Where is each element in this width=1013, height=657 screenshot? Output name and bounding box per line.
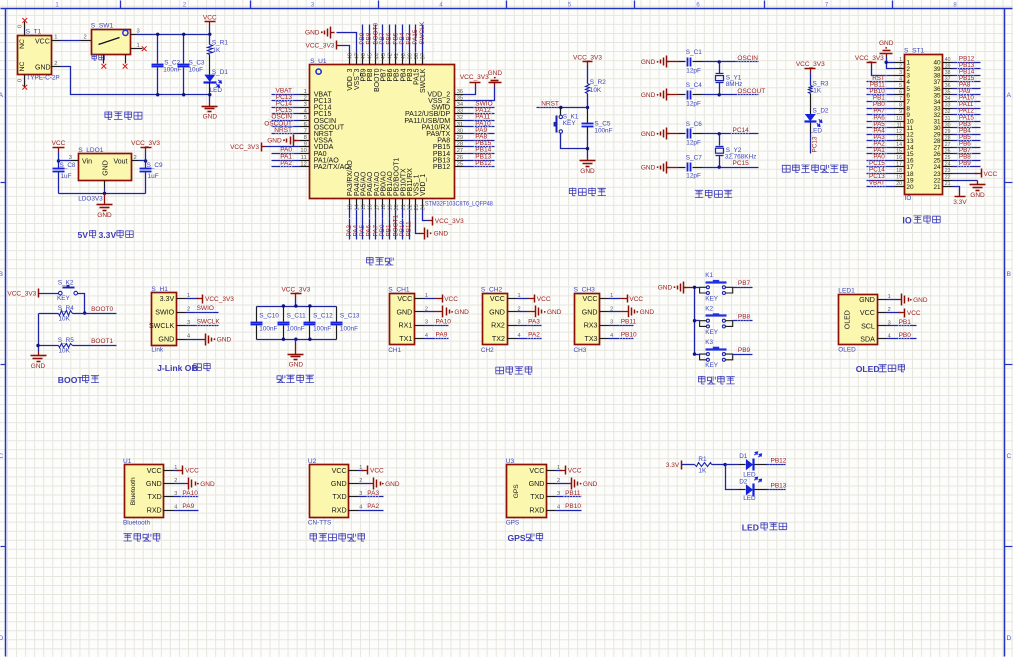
- svg-text:PB7: PB7: [738, 280, 751, 287]
- svg-text:TXD: TXD: [148, 493, 162, 501]
- svg-text:PA2: PA2: [280, 160, 292, 167]
- svg-text:1K: 1K: [698, 467, 707, 474]
- svg-text:11: 11: [301, 155, 307, 161]
- svg-text:SDA: SDA: [860, 335, 875, 343]
- svg-text:17: 17: [896, 162, 902, 168]
- LED S_D1: [204, 75, 215, 82]
- S_CH1 pin2 GND: [424, 311, 435, 313]
- svg-text:PA9: PA9: [436, 332, 448, 339]
- LDO pin 3 stub: [71, 160, 79, 162]
- S_SW1 pin 3 stub: [131, 34, 137, 36]
- wire D2 to PC13: [810, 123, 812, 135]
- title 蓝牙模块: [124, 533, 160, 541]
- svg-text:VCC: VCC: [203, 15, 217, 22]
- NRST wire and label: [537, 107, 588, 109]
- key S_K1: [560, 108, 562, 116]
- svg-text:10: 10: [896, 116, 902, 122]
- OLED pin2 VCC: [887, 312, 901, 314]
- svg-text:GND: GND: [397, 308, 413, 316]
- svg-text:20: 20: [906, 184, 914, 191]
- svg-text:25: 25: [457, 161, 463, 167]
- svg-text:GND: GND: [489, 308, 505, 316]
- svg-text:SCL: SCL: [861, 322, 875, 330]
- svg-text:PA10: PA10: [182, 490, 198, 497]
- zone ticks sides: [1, 182, 6, 184]
- svg-text:10uF: 10uF: [189, 67, 204, 74]
- svg-text:B: B: [1007, 271, 1011, 278]
- diode D1: [726, 464, 739, 466]
- svg-text:32.768KHz: 32.768KHz: [725, 153, 757, 160]
- wire R1 top: [209, 35, 211, 45]
- resistor S_R4 10K: [39, 313, 59, 315]
- capacitor S_C1 12pF: [679, 61, 686, 63]
- S_CH3 stubs and numbers: [600, 298, 609, 300]
- svg-text:GND: GND: [97, 212, 112, 219]
- svg-text:GND: GND: [913, 297, 928, 304]
- capacitor S_C8 1uF: [58, 161, 60, 169]
- svg-text:39: 39: [408, 53, 414, 59]
- resistor S_R3 1K: [809, 86, 813, 94]
- VSS_2 to GND: [464, 87, 495, 101]
- selection dots bottom band: [345, 210, 434, 219]
- svg-text:S_C11: S_C11: [287, 313, 307, 320]
- svg-text:VCC_3V3: VCC_3V3: [305, 43, 334, 50]
- svg-text:S_R1: S_R1: [212, 39, 228, 46]
- svg-text:11: 11: [897, 122, 902, 128]
- ground GND at pin 22: [953, 180, 978, 182]
- selection dots top band: [345, 42, 434, 53]
- svg-text:TXD: TXD: [530, 493, 544, 501]
- svg-text:35: 35: [457, 95, 463, 101]
- svg-text:A: A: [1007, 92, 1012, 99]
- header S_CH2 body: [483, 294, 508, 345]
- capacitor S_C10 100nF: [256, 307, 258, 322]
- S_CH3 pin1 VCC: [609, 298, 621, 300]
- svg-text:K2: K2: [705, 306, 713, 313]
- svg-text:44: 44: [374, 53, 380, 59]
- svg-text:3.3V: 3.3V: [953, 199, 967, 206]
- svg-text:GND: GND: [203, 113, 218, 120]
- ground at VSSA pin 8: [294, 140, 297, 142]
- svg-text:35: 35: [945, 90, 951, 96]
- svg-text:Vout: Vout: [113, 159, 127, 166]
- svg-text:48: 48: [348, 53, 354, 59]
- svg-text:IO: IO: [905, 195, 912, 202]
- svg-text:GND: GND: [385, 481, 400, 488]
- svg-text:28: 28: [945, 135, 951, 141]
- title 晶振电路: [695, 190, 733, 198]
- svg-text:TYPE-C-2P: TYPE-C-2P: [26, 75, 59, 82]
- svg-text:8: 8: [899, 103, 902, 109]
- S_SW1 rotary circle: [123, 30, 128, 35]
- svg-text:40: 40: [401, 53, 407, 59]
- svg-text:OLED: OLED: [856, 364, 880, 374]
- capacitor S_C3 10uF: [183, 35, 185, 64]
- switch S_SW1 body: [92, 30, 131, 55]
- wire Vout to VCC_3V3 node: [139, 160, 146, 162]
- svg-text:GND: GND: [35, 64, 51, 71]
- svg-text:GND: GND: [217, 337, 232, 344]
- svg-text:NC: NC: [19, 62, 26, 72]
- ground GND (S_C1 row): [667, 61, 670, 63]
- svg-text:3.3V: 3.3V: [666, 462, 680, 469]
- svg-text:SWIO: SWIO: [197, 305, 214, 312]
- S_H1 stubs and numbers: [177, 298, 186, 300]
- S_CH3 pin4 PB10: [609, 338, 634, 340]
- svg-text:GND: GND: [641, 164, 656, 171]
- svg-text:4: 4: [899, 77, 902, 83]
- svg-text:SWCLK: SWCLK: [420, 68, 427, 93]
- svg-text:PB11: PB11: [406, 221, 413, 237]
- S_CH2 pin3 PA3: [517, 325, 542, 327]
- module U2 body: [310, 465, 349, 518]
- svg-text:PB12: PB12: [475, 160, 491, 167]
- top pin stubs, numbers, names: [349, 53, 351, 65]
- wire key to BOOT0 node: [78, 294, 85, 314]
- wire K2 left: [695, 320, 700, 322]
- LDO pin 2 stub: [132, 160, 139, 162]
- wire to OSCIN: [703, 61, 759, 63]
- svg-text:PB10: PB10: [565, 503, 581, 510]
- header left stubs and outside numbers: [895, 62, 905, 64]
- wire K3 left: [695, 354, 700, 356]
- wire to OSCOUT: [703, 94, 759, 96]
- svg-text:43: 43: [381, 53, 387, 59]
- U1 stubs and numbers: [164, 470, 174, 472]
- svg-text:S_CH1: S_CH1: [388, 286, 410, 293]
- S_CH2 pin4 PA2: [517, 338, 542, 340]
- svg-text:GPS: GPS: [506, 519, 520, 526]
- svg-text:D: D: [1006, 635, 1011, 642]
- svg-text:100nF: 100nF: [594, 127, 612, 134]
- VSS_1 to GND: [416, 209, 420, 234]
- svg-text:C: C: [1006, 453, 1011, 460]
- OLED LED1 body: [839, 295, 878, 345]
- label 开关: [92, 54, 105, 60]
- svg-text:10K: 10K: [59, 315, 71, 322]
- ground GND (S_C7 row): [667, 167, 670, 169]
- svg-text:5: 5: [899, 83, 902, 89]
- power 3.3V at pin 21: [953, 187, 960, 193]
- svg-text:31: 31: [457, 122, 463, 128]
- svg-text:4: 4: [359, 504, 362, 510]
- svg-text:9: 9: [899, 109, 902, 115]
- wire R3 to D2: [810, 94, 812, 115]
- svg-text:NC: NC: [19, 39, 26, 49]
- header S_CH1 body: [390, 294, 415, 345]
- svg-text:34: 34: [457, 102, 464, 108]
- svg-text:R1: R1: [698, 456, 707, 463]
- svg-text:VCC: VCC: [490, 295, 505, 303]
- svg-text:33: 33: [945, 103, 951, 109]
- svg-text:28: 28: [457, 142, 463, 148]
- svg-text:PA2: PA2: [367, 503, 379, 510]
- OLED pin4 SDA to PB0: [887, 338, 917, 340]
- svg-text:S_C3: S_C3: [189, 59, 205, 66]
- svg-text:VCC_3V3: VCC_3V3: [460, 74, 489, 81]
- svg-text:21: 21: [945, 181, 951, 187]
- diode D2: [739, 489, 746, 491]
- svg-text:KEY: KEY: [563, 120, 577, 127]
- svg-text:VCC: VCC: [52, 140, 66, 147]
- S_CH1 pin4 PA9: [424, 338, 449, 340]
- wire to R2: [587, 67, 589, 84]
- svg-text:RX3: RX3: [584, 322, 598, 330]
- LDO S_LDO1 body: [79, 154, 132, 181]
- svg-text:SWIO: SWIO: [155, 309, 174, 317]
- svg-text:9: 9: [304, 142, 307, 148]
- svg-text:LDO3V3: LDO3V3: [78, 196, 103, 203]
- svg-text:1uF: 1uF: [61, 173, 72, 180]
- svg-text:BOOT1: BOOT1: [91, 338, 113, 345]
- svg-text:Bluetooth: Bluetooth: [123, 519, 150, 526]
- svg-text:38: 38: [945, 70, 951, 76]
- svg-text:GND: GND: [970, 192, 985, 199]
- U3 pin4 PB10: [556, 510, 582, 512]
- power VCC at pin 23: [953, 173, 978, 175]
- svg-text:3: 3: [425, 320, 428, 326]
- svg-text:VCC: VCC: [583, 295, 598, 303]
- svg-text:TX1: TX1: [399, 335, 412, 343]
- U1 pin2 GND: [174, 483, 186, 485]
- svg-text:B: B: [0, 271, 3, 278]
- svg-text:PB13: PB13: [771, 483, 787, 490]
- svg-text:LED1: LED1: [838, 287, 855, 294]
- ground GND power circuit: [209, 102, 211, 107]
- svg-text:GND: GND: [641, 131, 656, 138]
- svg-text:VCC: VCC: [860, 309, 875, 317]
- title 按键电路: [698, 376, 734, 384]
- capacitor S_C7 12pF: [679, 167, 686, 169]
- svg-text:41: 41: [394, 53, 400, 59]
- svg-text:RX2: RX2: [491, 322, 505, 330]
- U2 pin4 PA2: [359, 510, 384, 512]
- svg-text:36: 36: [945, 83, 951, 89]
- svg-text:SWCLK: SWCLK: [149, 322, 174, 330]
- header left net wires and labels: [867, 81, 895, 83]
- ground GND (keys): [684, 287, 687, 289]
- svg-text:8MHz: 8MHz: [726, 81, 743, 88]
- svg-text:C: C: [0, 453, 3, 460]
- header S_ST1 body: [905, 55, 943, 195]
- svg-text:LED: LED: [210, 87, 223, 94]
- S_SW1 bottom pins with no-connect: [103, 55, 105, 64]
- svg-text:RXD: RXD: [147, 506, 162, 514]
- svg-text:GND: GND: [31, 363, 46, 370]
- branch to D2: [726, 465, 739, 490]
- U2 stubs and numbers: [349, 470, 359, 472]
- wire R2 to NRST node: [587, 94, 589, 108]
- S_T1 pin 1 VCC stub: [52, 40, 61, 42]
- wire K1 left: [695, 287, 700, 289]
- ground GND (header top): [886, 54, 888, 57]
- svg-text:VCC_3V3: VCC_3V3: [796, 61, 825, 68]
- svg-text:VCC: VCC: [537, 296, 551, 303]
- S_SW1 pin 1 stub with no-connect: [131, 48, 143, 50]
- svg-text:1K: 1K: [813, 87, 822, 94]
- OLED pin1 GND: [887, 299, 899, 301]
- header right stubs and outside numbers: [943, 62, 953, 64]
- svg-text:GND: GND: [547, 309, 562, 316]
- MCU S_U1 body: [310, 65, 455, 199]
- svg-text:KEY: KEY: [705, 362, 719, 369]
- resistor S_R1 1K: [208, 45, 213, 55]
- svg-text:GPS: GPS: [513, 484, 520, 499]
- capacitor S_C9 1uF: [145, 161, 147, 169]
- U3 stubs and numbers: [547, 470, 556, 472]
- net label BOOT1: [90, 337, 111, 344]
- U3 pin1 VCC: [556, 470, 562, 472]
- svg-text:GND: GND: [658, 284, 673, 291]
- svg-text:D1: D1: [739, 453, 748, 460]
- crystal S_Y1 8MHz: [718, 60, 721, 63]
- svg-text:0: 0: [18, 25, 24, 28]
- svg-text:0: 0: [18, 79, 24, 82]
- svg-text:VCC_3V3: VCC_3V3: [7, 290, 36, 297]
- svg-text:PB0: PB0: [899, 332, 912, 339]
- S_CH1 pin1 VCC: [424, 298, 436, 300]
- svg-text:10K: 10K: [590, 87, 602, 94]
- svg-text:GND: GND: [580, 168, 595, 175]
- S_CH2 pin1 VCC: [517, 298, 529, 300]
- svg-text:OSCOUT: OSCOUT: [737, 88, 765, 95]
- svg-text:6: 6: [304, 122, 307, 128]
- S_CH2 pin2 GND: [517, 311, 528, 313]
- svg-text:PC13: PC13: [811, 136, 818, 152]
- svg-text:22: 22: [945, 175, 951, 181]
- svg-text:12: 12: [300, 161, 306, 167]
- svg-text:3.3V: 3.3V: [160, 295, 175, 303]
- top net wires pins 46-37: [362, 25, 364, 53]
- svg-text:27: 27: [457, 148, 463, 154]
- title 主芯片: [367, 257, 394, 265]
- svg-text:27: 27: [945, 142, 951, 148]
- svg-text:3: 3: [304, 102, 307, 108]
- svg-text:Vin: Vin: [82, 159, 92, 166]
- filter top rail: [257, 306, 337, 308]
- svg-text:CH1: CH1: [388, 347, 401, 354]
- svg-text:1: 1: [304, 89, 307, 95]
- svg-text:100nF: 100nF: [340, 326, 358, 333]
- svg-text:6: 6: [899, 90, 902, 96]
- svg-text:42: 42: [388, 53, 394, 59]
- wire LED to GND: [209, 83, 211, 95]
- svg-text:14: 14: [896, 142, 902, 148]
- svg-text:2: 2: [187, 307, 190, 313]
- svg-text:S_SW1: S_SW1: [91, 22, 114, 29]
- svg-text:S_H1: S_H1: [151, 286, 168, 293]
- svg-text:GND: GND: [200, 481, 215, 488]
- svg-text:PB12: PB12: [771, 457, 787, 464]
- svg-text:U1: U1: [123, 458, 132, 465]
- svg-text:PB11: PB11: [565, 490, 581, 497]
- svg-text:Link: Link: [151, 347, 164, 354]
- svg-text:VCC: VCC: [370, 468, 384, 475]
- svg-text:VCC: VCC: [984, 171, 998, 178]
- resistor S_R5 10K: [39, 345, 59, 347]
- svg-text:VCC_3V3: VCC_3V3: [855, 55, 884, 62]
- module U1 body: [125, 465, 164, 518]
- svg-text:VCC_3V3: VCC_3V3: [573, 55, 602, 62]
- OLED pin3 SCL to PB1: [887, 325, 917, 327]
- wire C8 node to Vin: [59, 160, 71, 162]
- svg-text:5: 5: [304, 115, 307, 121]
- svg-text:16: 16: [896, 155, 902, 161]
- svg-text:1: 1: [137, 43, 140, 49]
- svg-text:KEY: KEY: [57, 295, 71, 302]
- svg-text:100nF: 100nF: [259, 326, 277, 333]
- svg-text:3.3V: 3.3V: [99, 230, 117, 240]
- svg-text:VCC: VCC: [332, 467, 347, 475]
- svg-text:GND: GND: [529, 480, 545, 488]
- wire to R3: [810, 73, 812, 86]
- svg-text:GND: GND: [879, 40, 894, 47]
- svg-text:GND: GND: [859, 296, 875, 304]
- U3 pin3 PB11: [556, 496, 582, 498]
- LED S_D2: [805, 114, 816, 121]
- svg-text:VCC_3V3: VCC_3V3: [131, 140, 160, 147]
- ground GND (S_C4 row): [667, 94, 670, 96]
- wire K2 to PB8: [733, 320, 753, 322]
- svg-text:SWCLK: SWCLK: [197, 319, 221, 326]
- svg-text:GND: GND: [582, 308, 598, 316]
- svg-text:S_C4: S_C4: [686, 82, 702, 89]
- svg-text:KEY: KEY: [705, 329, 719, 336]
- svg-text:7: 7: [899, 96, 902, 102]
- svg-text:TX3: TX3: [584, 335, 597, 343]
- svg-text:VCC: VCC: [397, 295, 412, 303]
- svg-text:5V: 5V: [78, 230, 89, 240]
- svg-text:39: 39: [945, 63, 951, 69]
- svg-text:S_C6: S_C6: [686, 121, 702, 128]
- svg-text:GND: GND: [641, 92, 656, 99]
- pin4 GND: [186, 339, 203, 341]
- svg-text:S_C13: S_C13: [340, 313, 360, 320]
- header right net wires and labels: [953, 62, 981, 64]
- svg-text:D2: D2: [739, 478, 748, 485]
- svg-text:PB9: PB9: [959, 160, 971, 167]
- svg-text:S_D1: S_D1: [212, 69, 228, 76]
- pin2 SWIO: [186, 312, 219, 314]
- wire K1 to PB7: [733, 287, 753, 289]
- svg-text:S_C7: S_C7: [686, 154, 702, 161]
- crystal S_Y2 32.768KHz: [718, 132, 721, 135]
- wire pulldown rail: [38, 314, 40, 352]
- svg-text:37: 37: [421, 53, 427, 59]
- svg-text:PB8: PB8: [738, 314, 751, 321]
- svg-text:CH2: CH2: [481, 347, 494, 354]
- svg-text:33: 33: [457, 109, 463, 115]
- svg-text:PA3: PA3: [528, 318, 540, 325]
- zone ticks top: [120, 1, 122, 9]
- bottom rail wire: [59, 193, 146, 195]
- wire key bottom: [561, 134, 588, 149]
- svg-text:2: 2: [54, 61, 57, 67]
- svg-text:100nF: 100nF: [287, 326, 305, 333]
- net label BOOT0: [85, 313, 117, 315]
- svg-text:2: 2: [84, 35, 87, 41]
- bottom pin stubs, numbers, names: [349, 199, 351, 209]
- svg-text:S_CH3: S_CH3: [574, 286, 596, 293]
- svg-text:CH3: CH3: [574, 347, 587, 354]
- svg-text:2: 2: [134, 155, 137, 161]
- key S_K2: [39, 293, 59, 295]
- header S_H1 body: [152, 293, 177, 346]
- svg-text:1: 1: [54, 35, 57, 41]
- svg-text:VCC: VCC: [529, 467, 544, 475]
- title 滤波电路: [277, 375, 314, 383]
- svg-text:2: 2: [899, 63, 902, 69]
